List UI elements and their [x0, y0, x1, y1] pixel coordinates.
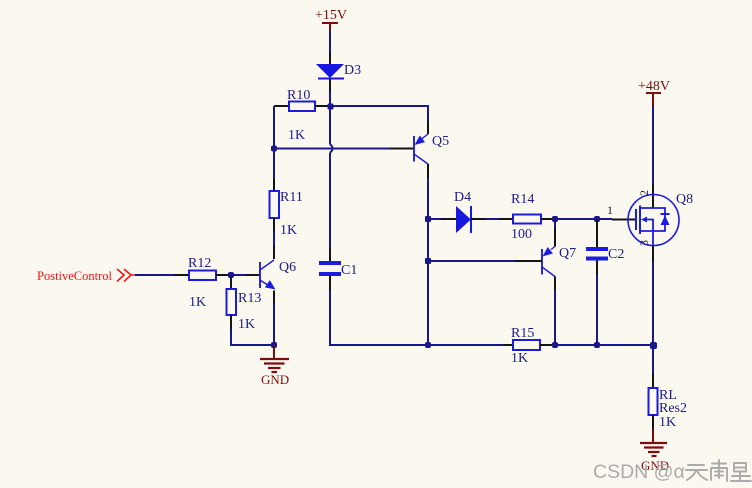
svg-text:+15V: +15V: [315, 8, 347, 23]
svg-text:1K: 1K: [280, 223, 297, 238]
wire vertical down to C1: [329, 153, 331, 249]
svg-text:R13: R13: [238, 291, 261, 306]
svg-text:1K: 1K: [659, 415, 676, 430]
svg-text:R15: R15: [511, 326, 534, 341]
resistor R12: [174, 256, 231, 310]
wire source rail: [428, 344, 503, 346]
pin D3 cathode: [329, 79, 331, 91]
node R14/Q7/gate: [552, 216, 558, 222]
mosfet Q8: [628, 192, 693, 246]
svg-text:3: 3: [637, 240, 651, 246]
svg-text:C2: C2: [608, 247, 624, 262]
pin Q8 gate: [612, 219, 636, 221]
wire port to R12: [135, 274, 174, 276]
pin Q7 emitter: [554, 228, 556, 247]
wire Q7 base from junction: [428, 260, 515, 262]
node Q7 base junction: [425, 258, 431, 264]
watermark CJK glyphs: [686, 460, 751, 481]
svg-text:Q8: Q8: [676, 192, 693, 207]
capacitor C1: [319, 248, 357, 290]
pin Q7 collector: [554, 277, 556, 291]
node D4 anode junction: [425, 216, 431, 222]
pin Q6 base: [246, 274, 259, 276]
svg-text:D4: D4: [454, 190, 471, 205]
wire node to D4: [428, 218, 441, 220]
wire R11 bottom to Q6 collector: [273, 231, 275, 246]
node R15 right: [552, 342, 558, 348]
port PostiveControl: [37, 269, 135, 283]
resistor R15: [503, 326, 555, 366]
pin Q7 base: [515, 260, 542, 262]
wire to RL: [652, 345, 654, 374]
resistor R14: [499, 192, 555, 242]
svg-text:1K: 1K: [189, 295, 206, 310]
pin Q5 emitter: [427, 121, 429, 134]
ground GND bottom: [640, 429, 669, 473]
svg-text:1K: 1K: [511, 351, 528, 366]
pin D4 anode: [441, 218, 456, 220]
svg-text:Q6: Q6: [279, 260, 296, 275]
resistor R10: [274, 88, 330, 143]
svg-text:Q7: Q7: [559, 246, 576, 261]
pin C2 top: [596, 219, 598, 247]
wire R11 top: [273, 149, 275, 179]
transistor Q7: [542, 246, 576, 277]
svg-text:CSDN @α: CSDN @α: [593, 461, 685, 483]
pin D3 anode: [329, 53, 331, 64]
wire D3 to node: [329, 91, 331, 106]
svg-text:R12: R12: [188, 256, 211, 271]
wire Q6 emitter down: [273, 304, 275, 345]
wire rail right: [555, 344, 653, 346]
pin Q8 drain: [652, 185, 654, 208]
wire node down to Q7 emitter: [554, 219, 556, 228]
resistor R11: [270, 178, 303, 238]
svg-text:R10: R10: [287, 88, 310, 103]
svg-text:1K: 1K: [288, 128, 305, 143]
diode D3: [316, 63, 361, 79]
wire +48V to Q8 drain: [652, 106, 654, 185]
wire Q8 source down: [652, 262, 654, 345]
wire D4 to R14: [486, 218, 499, 220]
wire gate run: [555, 218, 612, 220]
wire base node to Q5 base: [274, 148, 389, 150]
pin Q6 collector: [273, 246, 275, 259]
svg-text:D3: D3: [344, 63, 361, 78]
wire node down to hop: [329, 106, 331, 145]
transistor Q6: [260, 260, 296, 290]
node rail/C1 junction: [425, 342, 431, 348]
svg-text:PostiveControl: PostiveControl: [37, 269, 113, 283]
wire C1 bottom to rail: [330, 290, 428, 345]
pin D4 cathode: [471, 218, 486, 220]
wire node to Q6 base: [231, 274, 246, 276]
svg-text:R14: R14: [511, 192, 534, 207]
node C2 bottom: [594, 342, 600, 348]
node Q8 source rail: [650, 342, 657, 349]
pin Q8 source: [652, 246, 654, 263]
capacitor C2: [586, 247, 624, 274]
node GND junction: [271, 342, 277, 348]
svg-text:+48V: +48V: [638, 79, 670, 94]
wire node to Q5 emitter (top run): [330, 106, 428, 121]
svg-text:R11: R11: [280, 190, 303, 205]
node base junction: [271, 146, 277, 152]
power +15V: [315, 8, 347, 30]
wire Q5 collector to D4 node: [427, 178, 429, 219]
wire R10 left down to base node: [273, 106, 275, 149]
resistor R13: [227, 277, 262, 332]
transistor Q5: [414, 134, 449, 164]
wire R13 bottom to GND junction: [231, 329, 274, 345]
wire hop (vertical over horizontal): [330, 145, 332, 153]
svg-text:GND: GND: [261, 372, 289, 387]
wire +15V to D3: [329, 30, 331, 53]
pin Q5 base: [389, 148, 413, 150]
wire C2 bottom: [596, 274, 598, 345]
svg-text:Res2: Res2: [659, 401, 687, 416]
diode D4: [454, 190, 471, 233]
node C2 top: [594, 216, 600, 222]
pin Q5 collector: [427, 164, 429, 178]
resistor RL: [649, 374, 688, 430]
svg-text:1: 1: [607, 203, 613, 217]
pin Q6 emitter: [273, 291, 275, 305]
svg-text:1K: 1K: [238, 317, 255, 332]
wire junction down: [427, 219, 429, 345]
svg-text:C1: C1: [341, 263, 357, 278]
svg-text:Q5: Q5: [432, 134, 449, 149]
ground GND left: [260, 345, 289, 387]
node junction D3/R10: [328, 104, 334, 110]
wire Q7 collector down: [554, 290, 556, 345]
svg-text:100: 100: [511, 227, 532, 242]
power +48V: [638, 79, 670, 106]
node R12/R13/Q6 base: [228, 272, 234, 278]
